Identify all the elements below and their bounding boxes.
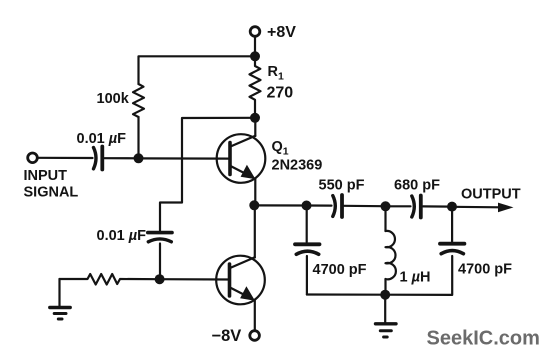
node emitter/output [249, 200, 259, 210]
svg-text:+8V: +8V [267, 24, 296, 41]
capacitor 550 pF [333, 196, 336, 217]
wire 550pF to node 2 [344, 205, 386, 208]
wire output row left [254, 204, 306, 206]
node filter 3 [447, 202, 457, 212]
capacitor C 0.01uF feedback [148, 231, 172, 235]
terminal input [28, 153, 38, 163]
svg-text:270: 270 [267, 85, 294, 102]
node input/base [134, 153, 144, 163]
capacitor 680 pF [412, 196, 415, 217]
ground bottom [376, 322, 397, 325]
wire +8V to node [254, 37, 256, 57]
wire Q1 collector [254, 118, 256, 136]
resistor base bias (horizontal) [60, 274, 160, 285]
wire cap to base node [105, 157, 139, 159]
node filter 1 [302, 201, 312, 211]
svg-text:550 pF: 550 pF [319, 177, 365, 193]
svg-text:0.01 µF: 0.01 µF [77, 131, 127, 147]
wire Q1 emitter [254, 179, 256, 206]
svg-text:OUTPUT: OUTPUT [461, 186, 521, 202]
node top supply [250, 51, 260, 61]
wire bottom left [307, 293, 385, 295]
wire top horizontal [139, 56, 256, 84]
svg-text:SeekIC.com: SeekIC.com [427, 328, 540, 350]
svg-text:−8V: −8V [212, 327, 242, 345]
svg-text:SIGNAL: SIGNAL [24, 185, 79, 201]
wire to 680pF [386, 205, 411, 207]
wire Q2 emitter [254, 300, 256, 330]
svg-text:1 µH: 1 µH [400, 270, 431, 286]
node bottom [380, 290, 390, 300]
wire to ground left [58, 279, 60, 307]
wire cap to lower base node [159, 244, 161, 280]
svg-text:0.01 µF: 0.01 µF [97, 228, 147, 244]
svg-text:4700 pF: 4700 pF [458, 262, 512, 278]
svg-text:2N2369: 2N2369 [272, 158, 323, 174]
wire input to cap [38, 157, 93, 159]
capacitor 4700 pF left [306, 206, 308, 243]
node below R1 [250, 113, 260, 123]
terminal +8V [250, 27, 260, 37]
wire 680pF to node 3 [423, 205, 452, 207]
resistor 100k [133, 84, 144, 117]
svg-text:680 pF: 680 pF [394, 177, 440, 193]
wire lower base [160, 278, 230, 280]
wire to 550pF [307, 204, 332, 206]
node filter 2 [381, 201, 391, 211]
wire output arrow [452, 206, 500, 209]
terminal -8V [250, 331, 260, 341]
svg-text:INPUT: INPUT [24, 168, 68, 184]
transistor Q2 [216, 256, 265, 305]
wire Q2 collector [254, 205, 256, 257]
resistor R1 [250, 56, 261, 118]
wire base of Q1 [139, 157, 231, 159]
wire ground stub bottom [384, 295, 386, 323]
wire feedback from node below R1 [160, 118, 255, 231]
transistor Q1 [217, 134, 266, 183]
ground left [50, 306, 70, 309]
capacitor C 0.01uF input [94, 148, 97, 169]
svg-text:100k: 100k [97, 91, 130, 107]
wire 100k to input node [137, 117, 139, 158]
capacitor 4700 pF right [440, 242, 464, 246]
node lower base [155, 274, 165, 284]
svg-text:4700 pF: 4700 pF [313, 262, 367, 278]
inductor 1 uH [386, 206, 396, 294]
wire bottom right [385, 256, 452, 295]
